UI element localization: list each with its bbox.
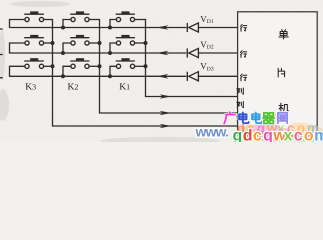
wire: cropped row-line nub at left edge y=53 (0, 54, 2, 56)
diode VD2 (187, 48, 198, 57)
watermark colorful site letters echo layer (237, 121, 319, 136)
wire: row line 1 (keys to diode VD1) (10, 27, 186, 29)
watermark char 电 (239, 112, 249, 123)
junction: column line 1 with row3 right wire (51, 64, 55, 68)
svg-text:d: d (243, 128, 253, 143)
pin label 行 (row 1) (240, 24, 246, 31)
wire: row line 2 (keys to diode VD2) (10, 52, 186, 54)
wire: switch row3 col2 left terminal to row line (63, 66, 71, 76)
svg-text:q: q (263, 128, 273, 143)
pin label 行 (row 2) (240, 51, 246, 58)
svg-text:x: x (284, 128, 293, 143)
pushbutton switch row1 col2 (70, 11, 89, 21)
watermark char 器 (263, 113, 274, 124)
arrow: current direction on column line y=113 (160, 111, 172, 116)
wire: switch row1 col3 left terminal to row line (110, 20, 116, 28)
junction: row line 3 with col3 left wire (108, 74, 112, 78)
wire: row line 3 (keys to diode VD3) (10, 75, 186, 77)
junction: row line 2 with col3 left wire (108, 51, 112, 55)
label 单 (MCU name char 1) (279, 30, 288, 39)
watermark colorful site letters (233, 128, 323, 145)
pushbutton switch row3 col2 (70, 58, 89, 68)
junction: column line 1 with row2 right wire (51, 41, 55, 45)
pushbutton switch row2 col1 (24, 35, 44, 45)
wire: switch row2 col2 left terminal to row line (63, 43, 71, 53)
pushbutton switch row2 col3 (116, 35, 135, 45)
wire: switch row1 col1 left terminal to row line (10, 20, 25, 28)
wire: row line 1 diode VD1 to MCU pin (198, 27, 237, 29)
scan background (0, 0, 323, 142)
pushbutton switch row1 col3 (116, 11, 135, 21)
pushbutton switch row1 col1 (24, 11, 44, 21)
wire: row line 3 diode VD3 to MCU pin (198, 75, 237, 77)
junction: row line 1 with col3 left wire (108, 26, 112, 30)
MCU box U1 (single-chip microcomputer) (238, 12, 318, 136)
wire: switch row3 col3 right terminal to column line (135, 65, 146, 67)
junction: column line 3 with row2 right wire (144, 41, 148, 45)
svg-text:www.: www. (195, 124, 229, 140)
junction: row line 2 with col2 left wire (61, 51, 65, 55)
svg-text:K1: K1 (119, 83, 130, 93)
wire: column 3 bottom line to MCU (146, 96, 238, 98)
junction: column line 2 with row3 right wire (98, 64, 102, 68)
arrow: current direction on column line y=96.5 (160, 94, 172, 99)
wire: switch row2 col3 left terminal to row line (110, 43, 116, 53)
junction: column line 3 with row3 right wire (144, 64, 148, 68)
junction: column line 2 with row2 right wire (98, 41, 102, 45)
watermark pastel blobs (234, 112, 323, 144)
pin label 列 (column 1) (237, 88, 244, 94)
pushbutton switch row3 col1 (24, 58, 44, 68)
wire: column line 3 vertical (x=145.5) (145, 20, 147, 97)
pin label 列 (column 3) (237, 115, 244, 121)
arrow: current direction on row line y=53 (157, 51, 169, 56)
junction: row line 1 with col2 left wire (61, 26, 65, 30)
wire: switch row1 col2 left terminal to row line (63, 20, 71, 28)
wire: cropped row-line nub at left edge y=76.3 (0, 77, 2, 79)
pin label 列 (column 2) (237, 101, 244, 107)
wire: row line 2 diode VD2 to MCU pin (198, 52, 237, 54)
wire: column 1 bottom line to MCU (53, 125, 238, 127)
arrow: current direction on column line y=126 (160, 124, 172, 129)
svg-text:K3: K3 (25, 83, 36, 93)
wire: column 2 bottom line to MCU (100, 112, 238, 114)
wire: switch row1 col2 right terminal to column line (89, 19, 99, 21)
arrow: current direction on row line y=76.3 (157, 74, 169, 79)
svg-text:c: c (294, 128, 303, 143)
wire: switch row3 col1 left terminal to row line (10, 66, 25, 76)
wire: switch row1 col1 right terminal to column line (44, 19, 53, 21)
wire: switch row2 col2 right terminal to column line (89, 42, 99, 44)
pin label 行 (row 3) (240, 74, 246, 81)
junction: row line 3 with col2 left wire (61, 74, 65, 78)
wire: switch row2 col1 right terminal to column line (44, 42, 53, 44)
wire: cropped row-line nub at left edge y=27.5 (0, 28, 2, 30)
svg-text:c: c (253, 128, 262, 143)
wire: switch row3 col2 right terminal to column line (89, 65, 99, 67)
diode VD1 (187, 23, 198, 32)
watermark char 网 (278, 113, 287, 123)
wire: switch row2 col3 right terminal to column line (135, 42, 146, 44)
wire: column line 2 vertical (x=99.5) (99, 20, 101, 114)
svg-text:m: m (314, 128, 323, 143)
label 片 (MCU name char 2) (278, 68, 284, 77)
svg-text:o: o (304, 128, 314, 143)
wire: column line 1 vertical (x=52.5) (52, 20, 54, 127)
wire: switch row2 col1 left terminal to row line (10, 43, 25, 53)
watermark char 电 (252, 112, 262, 123)
wire: switch row3 col1 right terminal to column line (44, 65, 53, 67)
pushbutton switch row2 col2 (70, 35, 89, 45)
wire: switch row3 col3 left terminal to row line (110, 66, 116, 76)
label 机 (MCU name char 3) (279, 103, 288, 112)
watermark char 广 (224, 112, 235, 124)
pushbutton switch row3 col3 (116, 58, 135, 68)
wire: switch row1 col3 right terminal to column line (135, 19, 146, 21)
arrow: current direction on row line y=27.5 (157, 25, 169, 30)
svg-text:g: g (233, 128, 243, 143)
diode VD3 (187, 72, 198, 81)
svg-text:K2: K2 (68, 83, 79, 93)
